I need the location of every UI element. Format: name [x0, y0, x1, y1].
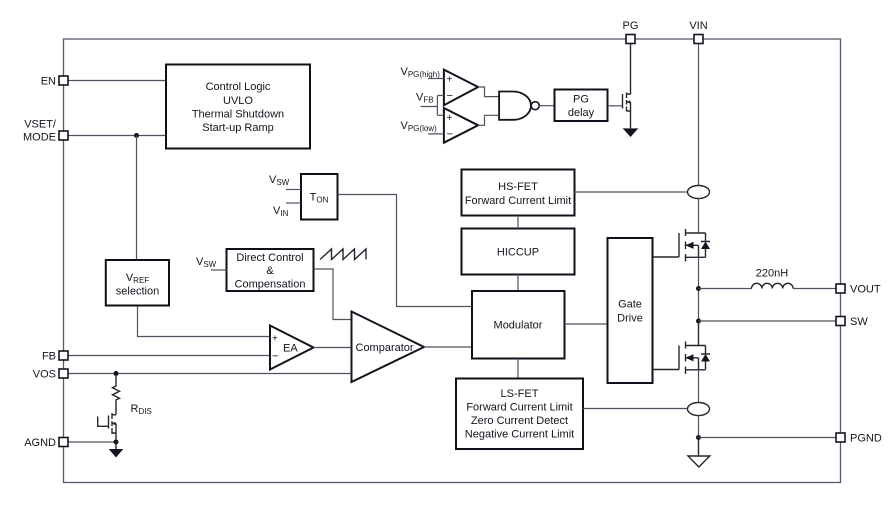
node PGND junction [696, 435, 701, 440]
wire LS-FET box to lower current sense ellipse [583, 408, 687, 410]
pin EN [59, 76, 68, 85]
svg-text:Drive: Drive [617, 313, 643, 325]
inductor 220nH [752, 283, 794, 288]
transistor LS power FET [653, 321, 710, 374]
box HS-FET Forward Current Limit [462, 170, 575, 216]
pin VOUT [836, 284, 845, 293]
pin PG [626, 35, 635, 44]
pin VSET/MODE [59, 131, 68, 140]
box VREF selection [106, 260, 169, 306]
wire PG delay to PG FET gate [608, 105, 623, 107]
wire HS-FET box to HICCUP [517, 216, 519, 229]
wire AGND pin to RDIS branch [68, 441, 116, 443]
svg-text:220nH: 220nH [756, 268, 788, 280]
svg-text:AGND: AGND [24, 437, 56, 449]
wire Modulator to LS-FET box [517, 359, 519, 379]
wire Direct Control output to Comparator [314, 269, 352, 320]
comparator PG high [444, 70, 478, 106]
IC boundary border [64, 39, 841, 483]
current sense ellipse LS [688, 403, 710, 416]
svg-text:selection: selection [116, 286, 159, 298]
box Gate Drive [608, 238, 653, 383]
wire VSET junction down to VREF selection [136, 136, 138, 261]
svg-text:MODE: MODE [23, 132, 56, 144]
wire VOS pin to Comparator [68, 373, 352, 375]
svg-text:Negative Current Limit: Negative Current Limit [465, 429, 574, 441]
pin PGND [836, 433, 845, 442]
svg-text:+: + [272, 334, 278, 345]
wire LS FET source to lower ellipse [698, 370, 700, 403]
svg-text:EA: EA [283, 343, 298, 355]
svg-text:UVLO: UVLO [223, 95, 253, 107]
svg-text:Thermal Shutdown: Thermal Shutdown [192, 109, 284, 121]
wire lower ellipse to PGND node [698, 416, 700, 438]
svg-text:EN: EN [41, 76, 56, 88]
box TON [301, 174, 338, 220]
transistor HS power FET [653, 229, 710, 262]
gate NAND [499, 92, 531, 120]
wire VSW stub to TON [286, 189, 301, 191]
wire inductor to VOUT pin [793, 288, 836, 290]
svg-text:Comparator: Comparator [356, 342, 414, 354]
wire HS FET source to SW node [698, 257, 700, 321]
node SW inductor junction [696, 286, 701, 291]
wire Modulator to Gate Drive [565, 323, 608, 325]
svg-text:VOS: VOS [33, 369, 56, 381]
svg-text:Control Logic: Control Logic [206, 81, 271, 93]
wire VIN pin down to HS FET [698, 44, 700, 186]
svg-text:&: & [266, 265, 274, 277]
svg-text:delay: delay [568, 107, 595, 119]
pin SW [836, 317, 845, 326]
svg-text:LS-FET: LS-FET [501, 388, 539, 400]
pin VOS [59, 369, 68, 378]
wire SW node to inductor [699, 288, 752, 290]
wire ellipse to HS FET drain [698, 199, 700, 234]
resistor RDIS [113, 374, 120, 415]
svg-text:PG: PG [573, 94, 589, 106]
svg-text:HS-FET: HS-FET [498, 181, 538, 193]
svg-text:+: + [447, 75, 453, 86]
wire VSET/MODE pin to Control Logic [68, 135, 166, 137]
box Control Logic [166, 65, 310, 149]
ground AGND arrow [115, 442, 117, 449]
transistor discharge FET [98, 413, 116, 440]
box Direct Control & Compensation [227, 249, 314, 291]
wire NAND to PG delay [539, 105, 554, 107]
box LS-FET limits [456, 379, 583, 450]
svg-text:Zero Current Detect: Zero Current Detect [471, 415, 568, 427]
comparator main PWM comparator [352, 312, 425, 383]
wire EA output to Comparator [314, 347, 352, 349]
wire EN pin to Control Logic [68, 80, 166, 82]
svg-text:PGND: PGND [850, 433, 882, 445]
svg-text:VIN: VIN [689, 20, 707, 32]
svg-text:Compensation: Compensation [235, 279, 306, 291]
svg-text:−: − [272, 351, 278, 363]
svg-text:PG: PG [623, 20, 639, 32]
svg-text:Forward Current Limit: Forward Current Limit [465, 195, 571, 207]
pin VIN [694, 35, 703, 44]
wire VREF selection to EA + input [138, 306, 271, 337]
wire SW node to SW pin [699, 320, 837, 322]
svg-text:−: − [447, 129, 453, 141]
svg-text:FB: FB [42, 351, 56, 363]
pin FB [59, 351, 68, 360]
wire Comparator output to Modulator [424, 346, 472, 348]
wire PG high comparator to NAND [478, 87, 499, 97]
wire PGND node to PGND pin [699, 437, 837, 439]
wire VPG(low) input [428, 133, 444, 135]
svg-text:Modulator: Modulator [494, 320, 543, 332]
comparator PG low [444, 108, 478, 143]
box Modulator [472, 291, 565, 359]
ground PGND symbol [688, 440, 710, 467]
transistor PG pull-down FET [623, 44, 631, 129]
box HICCUP [462, 229, 575, 275]
node VSET junction [134, 133, 139, 138]
wire HS-FET box to current sense ellipse [575, 191, 688, 193]
node AGND junction [114, 440, 119, 445]
wire PG low comparator to NAND [478, 115, 499, 125]
current sense ellipse HS [688, 186, 710, 199]
wire FB pin to EA - input [68, 355, 270, 357]
svg-text:HICCUP: HICCUP [497, 247, 539, 259]
svg-text:SW: SW [850, 316, 868, 328]
ground PG FET arrow [623, 128, 639, 137]
sawtooth ramp waveform [320, 249, 366, 260]
wire VSW stub to Direct Control [211, 269, 227, 271]
wire VIN stub to TON [286, 202, 301, 204]
box PG delay [555, 90, 608, 122]
wire HICCUP to Modulator [517, 275, 519, 292]
svg-text:VSET/: VSET/ [24, 119, 57, 131]
node SW pin junction [696, 319, 701, 324]
svg-text:Gate: Gate [618, 299, 642, 311]
svg-text:VOUT: VOUT [850, 284, 881, 296]
svg-text:Start-up Ramp: Start-up Ramp [202, 122, 274, 134]
op-amp EA error amplifier [270, 326, 314, 370]
node VOS junction [114, 371, 119, 376]
svg-text:+: + [447, 113, 453, 124]
wire VPG(high) input [428, 78, 444, 80]
wire VFB to both comparators [421, 96, 444, 116]
wire TON output to Modulator [338, 195, 473, 307]
svg-text:−: − [447, 90, 453, 102]
svg-text:Forward Current Limit: Forward Current Limit [466, 402, 572, 414]
pin AGND [59, 438, 68, 447]
svg-text:Direct Control: Direct Control [236, 252, 303, 264]
